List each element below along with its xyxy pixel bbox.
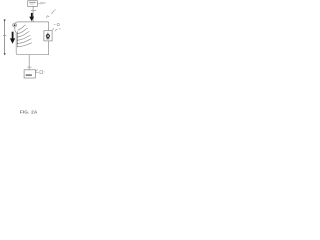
svg-text:FIG. 2A: FIG. 2A xyxy=(20,110,38,115)
